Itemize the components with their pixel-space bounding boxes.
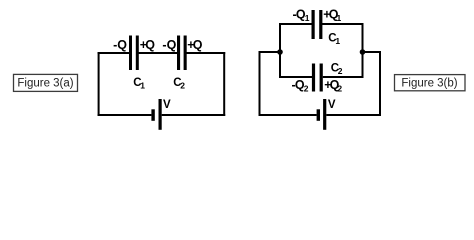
caption box Figure 3(b) [395, 75, 466, 91]
junction dot right node [360, 49, 366, 55]
svg-text:V: V [163, 99, 171, 111]
wire: 3b bottom branch right segment [323, 76, 363, 78]
capacitor C2 (3a) left plate [177, 36, 180, 71]
battery V (3a) short plate [151, 109, 154, 121]
wire: 3a left vertical [98, 52, 100, 116]
wire: 3a right vertical [223, 52, 225, 116]
svg-text:-Q: -Q [162, 38, 176, 52]
wire: 3b right stub [363, 51, 382, 53]
wire: 3b bottom rail left segment [259, 114, 317, 116]
capacitor C2 (3a) right plate [184, 36, 187, 71]
wire: 3b inner left vertical [279, 23, 281, 78]
capacitor C1 (3a) left plate [129, 36, 132, 71]
wire: 3b outer left vertical [259, 51, 261, 116]
wire: 3a bottom rail right segment [162, 114, 226, 116]
battery V (3b) short plate [317, 109, 320, 121]
caption box Figure 3(a) [14, 74, 78, 91]
svg-text:+Q: +Q [187, 38, 202, 52]
capacitor C1 (3b) left plate [312, 10, 315, 39]
capacitor C2 (3b) right plate [320, 64, 323, 92]
capacitor C1 (3a) right plate [136, 36, 139, 71]
wire: 3b top branch right segment [322, 23, 363, 25]
junction dot left node [277, 49, 283, 55]
battery V (3a) long plate [159, 99, 162, 130]
svg-text:Figure 3(a): Figure 3(a) [17, 77, 73, 89]
wire: 3b bottom branch left segment [280, 76, 312, 78]
battery V (3b) long plate [323, 99, 326, 130]
wire: 3a top rail middle segment [139, 52, 178, 54]
svg-text:-Q: -Q [113, 38, 127, 52]
svg-text:+Q: +Q [140, 38, 155, 52]
wire: 3b left stub [259, 51, 281, 53]
wire: 3a top rail left segment [98, 52, 130, 54]
capacitor C2 (3b) left plate [312, 64, 315, 92]
wire: 3b outer right vertical [379, 51, 381, 116]
wire: 3b top branch left segment [280, 23, 312, 25]
svg-text:V: V [328, 99, 336, 111]
capacitor C1 (3b) right plate [319, 10, 322, 39]
wire: 3b bottom rail right segment [326, 114, 381, 116]
wire: 3a bottom rail left segment [98, 114, 152, 116]
svg-text:Figure 3(b): Figure 3(b) [401, 77, 457, 89]
wire: 3b inner right vertical [362, 23, 364, 78]
wire: 3a top rail right segment [186, 52, 225, 54]
